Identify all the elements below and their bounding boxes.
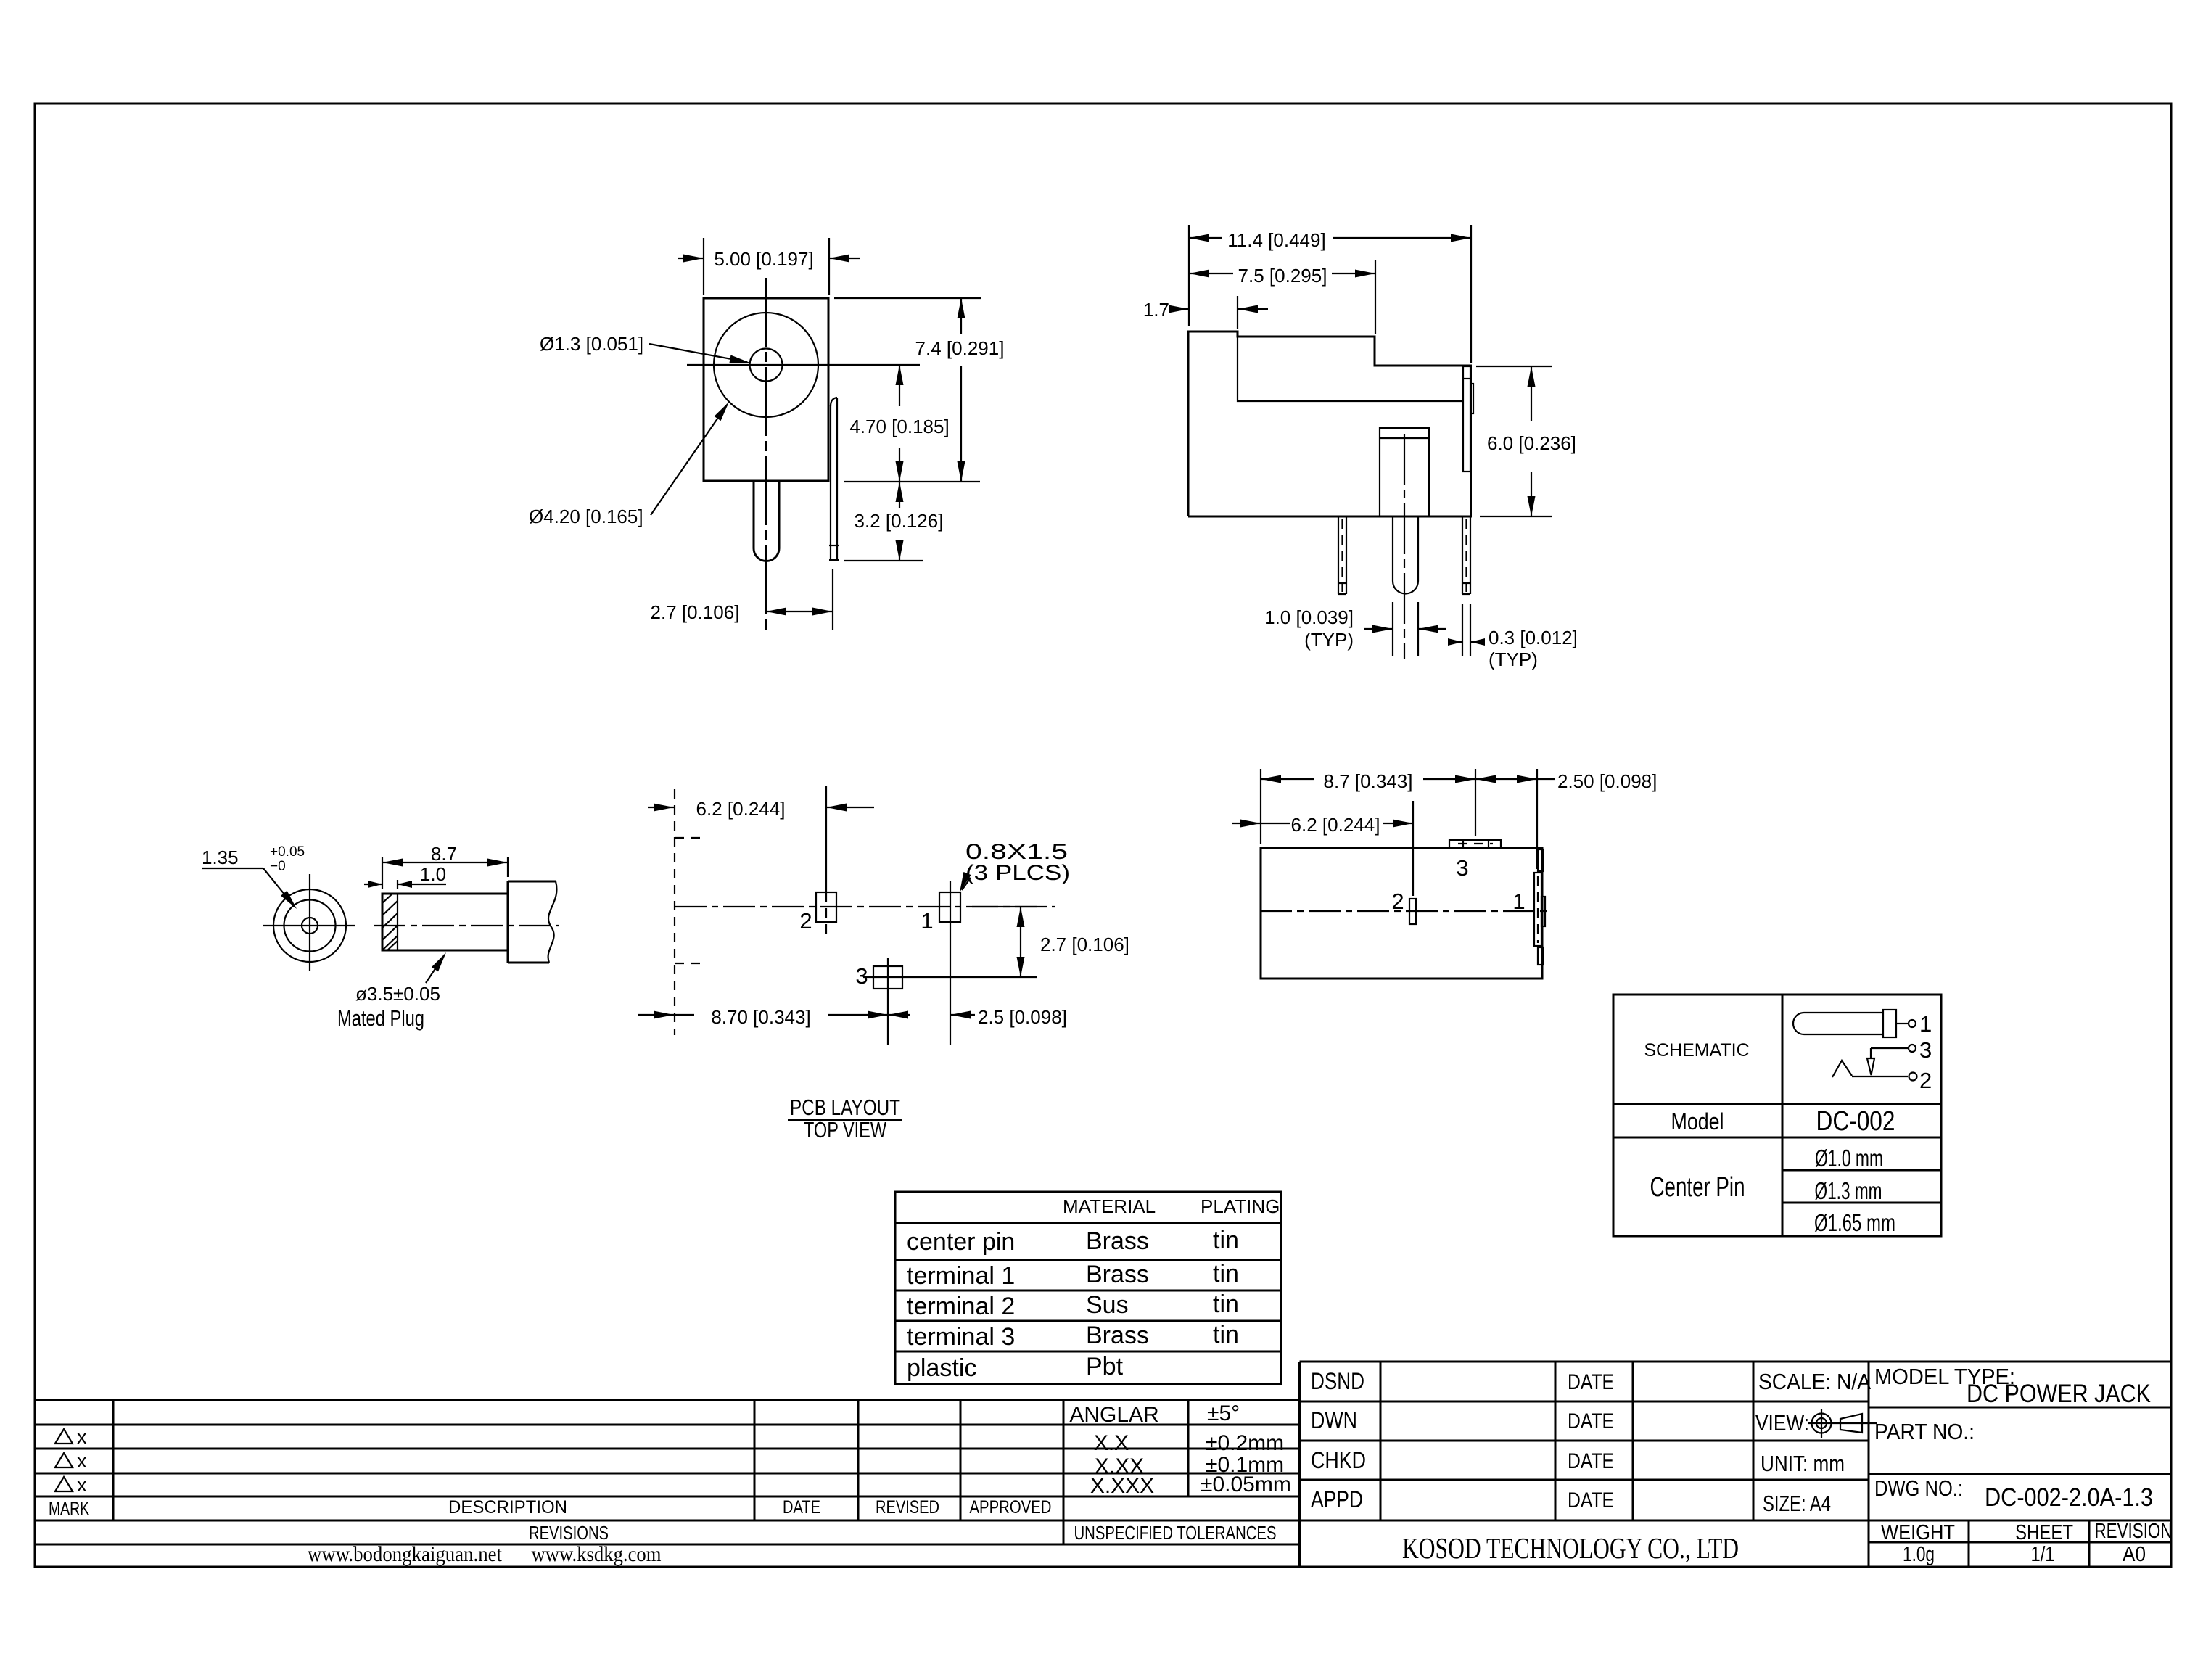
svg-text:DESCRIPTION: DESCRIPTION <box>448 1497 567 1518</box>
svg-text:UNSPECIFIED TOLERANCES: UNSPECIFIED TOLERANCES <box>1074 1522 1277 1544</box>
svg-text:5.00 [0.197]: 5.00 [0.197] <box>714 248 813 270</box>
svg-text:PART NO.:: PART NO.: <box>1874 1419 1975 1444</box>
svg-text:1: 1 <box>921 908 933 934</box>
svg-text:6.2 [0.244]: 6.2 [0.244] <box>1291 814 1380 836</box>
svg-text:Ø1.65 mm: Ø1.65 mm <box>1814 1209 1895 1236</box>
svg-text:CHKD: CHKD <box>1311 1447 1366 1473</box>
svg-text:REVISIONS: REVISIONS <box>529 1522 609 1544</box>
svg-text:8.7: 8.7 <box>431 843 457 865</box>
svg-text:X.X: X.X <box>1094 1431 1129 1455</box>
svg-text:1: 1 <box>1512 889 1525 914</box>
svg-text:6.0 [0.236]: 6.0 [0.236] <box>1487 432 1576 454</box>
svg-text:DC POWER JACK: DC POWER JACK <box>1967 1380 2151 1408</box>
svg-text:DATE: DATE <box>1568 1409 1614 1433</box>
svg-text:(TYP): (TYP) <box>1304 629 1354 651</box>
svg-text:Brass: Brass <box>1086 1227 1149 1255</box>
svg-text:www.bodongkaiguan.net: www.bodongkaiguan.net <box>308 1542 503 1566</box>
svg-text:Ø4.20 [0.165]: Ø4.20 [0.165] <box>529 506 643 527</box>
svg-text:ANGLAR: ANGLAR <box>1069 1403 1158 1427</box>
svg-text:KOSOD TECHNOLOGY CO., LTD: KOSOD TECHNOLOGY CO., LTD <box>1402 1531 1739 1565</box>
svg-text:x: x <box>77 1426 87 1448</box>
svg-text:(3 PLCS): (3 PLCS) <box>965 861 1070 885</box>
svg-text:±0.05mm: ±0.05mm <box>1201 1473 1291 1496</box>
svg-text:Pbt: Pbt <box>1086 1353 1124 1380</box>
svg-text:8.7 [0.343]: 8.7 [0.343] <box>1324 770 1413 792</box>
svg-text:SIZE: A4: SIZE: A4 <box>1763 1491 1831 1516</box>
svg-text:tin: tin <box>1213 1290 1239 1318</box>
svg-text:3: 3 <box>1456 855 1468 881</box>
svg-text:tin: tin <box>1213 1260 1239 1288</box>
svg-text:DWG NO.:: DWG NO.: <box>1874 1475 1963 1501</box>
svg-text:2.7 [0.106]: 2.7 [0.106] <box>1040 934 1129 955</box>
svg-text:DC-002: DC-002 <box>1816 1106 1895 1137</box>
svg-text:1.0 [0.039]: 1.0 [0.039] <box>1264 606 1354 628</box>
svg-text:Model: Model <box>1671 1108 1724 1135</box>
svg-text:6.2 [0.244]: 6.2 [0.244] <box>696 798 786 820</box>
svg-text:Brass: Brass <box>1086 1261 1149 1288</box>
svg-text:APPROVED: APPROVED <box>970 1497 1052 1518</box>
svg-text:www.ksdkg.com: www.ksdkg.com <box>532 1542 662 1566</box>
svg-text:DATE: DATE <box>1568 1449 1614 1473</box>
svg-text:±0.2mm: ±0.2mm <box>1206 1431 1284 1455</box>
svg-text:DSND: DSND <box>1311 1368 1364 1394</box>
svg-text:1.0: 1.0 <box>420 863 446 885</box>
svg-text:Ø1.3 [0.051]: Ø1.3 [0.051] <box>540 333 643 355</box>
svg-text:8.70 [0.343]: 8.70 [0.343] <box>711 1006 810 1028</box>
svg-text:11.4 [0.449]: 11.4 [0.449] <box>1227 229 1325 251</box>
svg-text:7.4 [0.291]: 7.4 [0.291] <box>915 337 1005 359</box>
svg-text:DC-002-2.0A-1.3: DC-002-2.0A-1.3 <box>1985 1483 2153 1512</box>
svg-text:terminal 3: terminal 3 <box>907 1323 1015 1351</box>
svg-text:−0: −0 <box>270 859 286 874</box>
svg-text:terminal 1: terminal 1 <box>907 1262 1015 1290</box>
svg-text:2.50 [0.098]: 2.50 [0.098] <box>1557 770 1657 792</box>
svg-text:A0: A0 <box>2123 1543 2146 1566</box>
svg-text:0.3 [0.012]: 0.3 [0.012] <box>1489 627 1578 648</box>
svg-text:APPD: APPD <box>1311 1486 1363 1512</box>
svg-text:X.XXX: X.XXX <box>1090 1474 1154 1498</box>
svg-text:Brass: Brass <box>1086 1322 1149 1349</box>
svg-text:SHEET: SHEET <box>2015 1521 2073 1544</box>
svg-text:1.0g: 1.0g <box>1903 1543 1935 1566</box>
svg-text:SCALE: N/A: SCALE: N/A <box>1758 1369 1871 1394</box>
svg-text:Sus: Sus <box>1086 1291 1129 1319</box>
svg-text:tin: tin <box>1213 1321 1239 1348</box>
svg-text:TOP VIEW: TOP VIEW <box>804 1117 887 1142</box>
svg-text:2: 2 <box>1391 889 1404 914</box>
svg-text:MATERIAL: MATERIAL <box>1063 1195 1156 1217</box>
svg-text:3.2 [0.126]: 3.2 [0.126] <box>855 510 944 532</box>
svg-text:plastic: plastic <box>907 1354 976 1382</box>
svg-text:terminal 2: terminal 2 <box>907 1293 1015 1320</box>
svg-text:(TYP): (TYP) <box>1489 648 1538 670</box>
svg-text:4.70 [0.185]: 4.70 [0.185] <box>849 416 949 437</box>
svg-text:DATE: DATE <box>1568 1488 1614 1512</box>
svg-text:1/1: 1/1 <box>2031 1543 2055 1566</box>
svg-text:2.5 [0.098]: 2.5 [0.098] <box>978 1006 1067 1028</box>
svg-text:Ø1.3 mm: Ø1.3 mm <box>1815 1177 1882 1204</box>
svg-text:DATE: DATE <box>783 1497 820 1518</box>
svg-text:2: 2 <box>1919 1068 1932 1093</box>
svg-text:1.7: 1.7 <box>1143 299 1169 321</box>
svg-text:3: 3 <box>1919 1037 1932 1063</box>
svg-text:center pin: center pin <box>907 1228 1015 1256</box>
svg-text:±5°: ±5° <box>1207 1401 1240 1425</box>
svg-text:UNIT: mm: UNIT: mm <box>1761 1451 1845 1476</box>
svg-text:3: 3 <box>855 963 868 989</box>
svg-text:VIEW:: VIEW: <box>1755 1410 1809 1436</box>
svg-text:REVISED: REVISED <box>876 1497 939 1518</box>
svg-text:1.35: 1.35 <box>202 847 239 868</box>
svg-text:Ø1.0 mm: Ø1.0 mm <box>1815 1145 1883 1172</box>
svg-text:MARK: MARK <box>49 1499 89 1519</box>
svg-text:SCHEMATIC: SCHEMATIC <box>1644 1040 1749 1061</box>
svg-text:PCB LAYOUT: PCB LAYOUT <box>790 1095 900 1120</box>
svg-text:x: x <box>77 1450 87 1472</box>
svg-text:2.7 [0.106]: 2.7 [0.106] <box>651 601 740 623</box>
svg-text:DATE: DATE <box>1568 1370 1614 1394</box>
svg-text:Mated Plug: Mated Plug <box>337 1005 424 1031</box>
svg-text:Center Pin: Center Pin <box>1650 1172 1745 1203</box>
svg-text:7.5 [0.295]: 7.5 [0.295] <box>1238 265 1327 287</box>
svg-text:2: 2 <box>799 908 812 934</box>
svg-text:x: x <box>77 1474 87 1496</box>
svg-text:WEIGHT: WEIGHT <box>1881 1521 1955 1544</box>
svg-text:+0.05: +0.05 <box>270 844 305 860</box>
svg-text:REVISION: REVISION <box>2095 1520 2173 1543</box>
svg-text:PLATING: PLATING <box>1201 1195 1280 1217</box>
svg-text:1: 1 <box>1919 1011 1932 1037</box>
svg-text:DWN: DWN <box>1311 1407 1357 1433</box>
svg-text:tin: tin <box>1213 1227 1239 1254</box>
svg-text:ø3.5±0.05: ø3.5±0.05 <box>355 983 440 1005</box>
